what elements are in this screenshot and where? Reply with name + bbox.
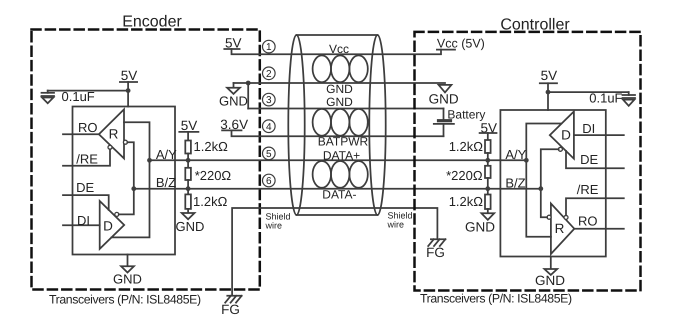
- wire: 5V rail down into IC top: [547, 83, 549, 110]
- cable jacket top line: [297, 34, 378, 36]
- node: controller B/Z junction: [538, 186, 543, 191]
- pin 6 circled number: [263, 174, 276, 187]
- svg-text:R: R: [555, 221, 565, 236]
- svg-text:Vcc (5V): Vcc (5V): [437, 37, 485, 51]
- wire: R5 to B/Z: [487, 178, 489, 189]
- svg-text:wire: wire: [387, 220, 405, 230]
- cable jacket bottom line: [297, 214, 378, 216]
- node: R5/BZ junction: [485, 186, 490, 191]
- wire: R4 to A/Y: [487, 153, 489, 160]
- IC U1 box (encoder transceiver): [73, 107, 176, 255]
- wire: R2 to B/Z: [187, 180, 189, 189]
- pin 4 circled number: [263, 120, 276, 133]
- svg-text:DE: DE: [76, 180, 94, 195]
- svg-text:2: 2: [266, 69, 272, 80]
- svg-text:B/Z: B/Z: [505, 175, 525, 190]
- wire: controller A/Y internal net (D output Y to R input A): [526, 124, 561, 237]
- svg-text:5: 5: [266, 149, 272, 160]
- resistor R4 1.2k (controller pullup): [485, 140, 491, 153]
- dashed enclosure: Encoder box: [32, 30, 260, 290]
- pin bubble: encoder receiver B input: [123, 140, 127, 144]
- op-amp R2rx (controller receiver triangle): [551, 204, 574, 255]
- svg-text:0.1uF: 0.1uF: [589, 90, 622, 105]
- svg-text:DI: DI: [582, 121, 595, 136]
- svg-text:B/Z: B/Z: [156, 175, 176, 190]
- wire: encoder A/Y internal net (R input A to D output Y): [112, 122, 150, 237]
- pin bubble: controller receiver enable (on upper edge): [564, 215, 568, 219]
- svg-text:4: 4: [266, 122, 272, 133]
- svg-text:GND: GND: [113, 272, 142, 287]
- svg-text:*220Ω: *220Ω: [195, 168, 232, 183]
- resistor R6 1.2k (controller pulldown): [485, 195, 491, 210]
- svg-text:BATPWR: BATPWR: [318, 135, 369, 149]
- ground: below R6: [487, 209, 489, 213]
- cable jacket left end cap: [288, 35, 304, 215]
- twisted pair 3 loops (DATA+/DATA-): [313, 161, 331, 188]
- svg-text:Encoder: Encoder: [122, 14, 182, 31]
- op-amp D2tx (controller driver triangle): [550, 112, 574, 159]
- svg-text:GND: GND: [326, 82, 353, 96]
- svg-text:1: 1: [266, 42, 272, 53]
- capacitor C1 0.1uF (encoder): [47, 91, 49, 93]
- svg-text:DATA-: DATA-: [322, 188, 356, 202]
- svg-text:Vcc: Vcc: [329, 42, 349, 56]
- svg-text:1.2kΩ: 1.2kΩ: [194, 139, 229, 154]
- svg-text:FG: FG: [221, 302, 240, 317]
- wire: /RE pin routing: [566, 198, 624, 215]
- ground: FG frame ground (left): [227, 295, 241, 297]
- ground: below R3: [187, 209, 189, 213]
- op-amp D1tx (encoder driver triangle): [100, 201, 125, 249]
- wire: 5V rail down into IC top: [127, 82, 129, 107]
- svg-text:D: D: [103, 219, 113, 234]
- ground: controller IC GND pin: [550, 257, 552, 270]
- node: R4/AY junction: [485, 158, 490, 163]
- resistor R2 *220 (encoder termination): [185, 168, 191, 180]
- resistor R3 1.2k (encoder pulldown): [185, 194, 191, 209]
- svg-text:FG: FG: [426, 245, 445, 260]
- node: encoder B/Z junction: [131, 186, 136, 191]
- wire: A/Y to R2: [187, 160, 189, 168]
- svg-text:/RE: /RE: [577, 182, 599, 197]
- resistor R1 1.2k (encoder pullup): [185, 141, 191, 154]
- svg-text:5V: 5V: [225, 35, 242, 50]
- wire: A/Y to R5: [487, 160, 489, 166]
- ground: encoder cable GND: [233, 83, 235, 88]
- wire: B/Z to R6: [487, 189, 489, 195]
- ground: FG frame ground (right): [431, 238, 446, 240]
- svg-text:0.1uF: 0.1uF: [62, 89, 95, 104]
- pin 5 circled number: [263, 147, 276, 160]
- pin bubble: encoder receiver enable (on lower edge): [108, 145, 112, 149]
- svg-text:Controller: Controller: [500, 17, 570, 34]
- node: controller 5V / cap junction: [546, 90, 551, 95]
- svg-text:GND: GND: [219, 94, 248, 109]
- svg-text:5V: 5V: [121, 68, 138, 83]
- svg-text:Transceivers (P/N: ISL8485E): Transceivers (P/N: ISL8485E): [420, 292, 572, 306]
- svg-text:1.2kΩ: 1.2kΩ: [449, 139, 484, 154]
- pin bubble: controller driver Z output (on lower edge): [558, 147, 562, 151]
- IC U2 box (controller transceiver): [500, 110, 605, 257]
- svg-text:6: 6: [266, 176, 272, 187]
- svg-text:DE: DE: [580, 152, 598, 167]
- svg-text:RO: RO: [78, 120, 98, 135]
- svg-text:1.2kΩ: 1.2kΩ: [193, 194, 228, 209]
- op-amp R1rx (encoder receiver triangle): [99, 109, 124, 158]
- pin bubble: controller receiver B input: [547, 215, 551, 219]
- capacitor C2 0.1uF (controller): [628, 92, 630, 95]
- svg-text:GND: GND: [176, 219, 205, 234]
- wire 1: 5V / Vcc: [232, 49, 442, 54]
- svg-text:R: R: [109, 127, 119, 142]
- ground: encoder IC GND pin: [127, 255, 129, 267]
- wire: RO pin stub: [574, 228, 624, 230]
- wire: to decoupling cap C2: [548, 91, 629, 93]
- wire: DI pin stub: [574, 134, 624, 136]
- wire: DE pin routing: [63, 195, 109, 210]
- wire: /RE pin routing: [63, 149, 110, 166]
- cable jacket right end cap: [369, 35, 385, 215]
- wire: RO pin stub: [63, 133, 99, 135]
- svg-text:DI: DI: [77, 213, 90, 228]
- node: 5V / cap junction: [126, 88, 131, 93]
- svg-text:DATA+: DATA+: [323, 149, 360, 163]
- svg-text:RO: RO: [578, 213, 598, 228]
- pin 2 circled number: [263, 67, 276, 80]
- svg-text:GND: GND: [429, 92, 459, 107]
- wire 2: GND: [234, 82, 446, 84]
- pin 3 circled number: [263, 93, 276, 106]
- node: encoder A/Y junction: [147, 158, 152, 163]
- svg-text:D: D: [561, 127, 571, 142]
- wire 3: GND: [248, 108, 443, 110]
- node: wire2 gnd junction: [246, 81, 251, 86]
- svg-text:wire: wire: [265, 221, 283, 231]
- svg-text:Transceivers (P/N: ISL8485E): Transceivers (P/N: ISL8485E): [49, 292, 201, 306]
- wire: to decoupling cap C1: [48, 90, 128, 92]
- svg-text:A/Y: A/Y: [505, 147, 526, 162]
- svg-text:*220Ω: *220Ω: [446, 168, 483, 183]
- wire 5: DATA+: [150, 159, 527, 161]
- pin bubble: encoder driver Z output (on upper edge): [115, 212, 119, 216]
- svg-text:1.2kΩ: 1.2kΩ: [449, 194, 484, 209]
- wire 4: BATPWR 3.6V: [232, 130, 444, 136]
- dashed enclosure: Controller box: [415, 32, 641, 291]
- wire: B/Z to R3: [187, 189, 189, 195]
- svg-text:/RE: /RE: [76, 151, 98, 166]
- wire: controller B/Z internal net (D output Z to R input B): [541, 149, 559, 217]
- svg-text:5V: 5V: [541, 68, 558, 83]
- wire: R1 to A/Y: [187, 154, 189, 161]
- svg-text:GND: GND: [535, 273, 565, 288]
- wire: shield conductor to FG both ends: [232, 208, 437, 295]
- wire: 5V to R1: [187, 132, 189, 141]
- twisted pair 1 loops (Vcc/GND): [313, 55, 331, 82]
- twisted pair 2 loops (GND/BATPWR): [313, 109, 331, 136]
- node: R2/BZ junction: [186, 186, 191, 191]
- node: R1/AY junction: [186, 158, 191, 163]
- pin 1 circled number: [263, 40, 276, 53]
- wire: DE pin routing: [566, 151, 624, 168]
- battery B1: [443, 109, 445, 120]
- svg-text:3: 3: [266, 95, 272, 106]
- wire: 5V to R4: [487, 133, 489, 140]
- wire 6: DATA-: [134, 188, 542, 190]
- resistor R5 *220 (controller termination): [485, 166, 491, 178]
- wire: encoder B/Z internal net (R input B to D output Z): [119, 142, 134, 214]
- svg-text:GND: GND: [465, 220, 495, 235]
- node: controller A/Y junction: [524, 158, 529, 163]
- svg-text:5V: 5V: [181, 118, 198, 133]
- wire: DI pin stub: [63, 224, 100, 226]
- svg-text:GND: GND: [326, 95, 353, 109]
- ground: controller cable GND (wire 2): [439, 85, 452, 93]
- wire: wire2 to wire3 link: [247, 83, 249, 109]
